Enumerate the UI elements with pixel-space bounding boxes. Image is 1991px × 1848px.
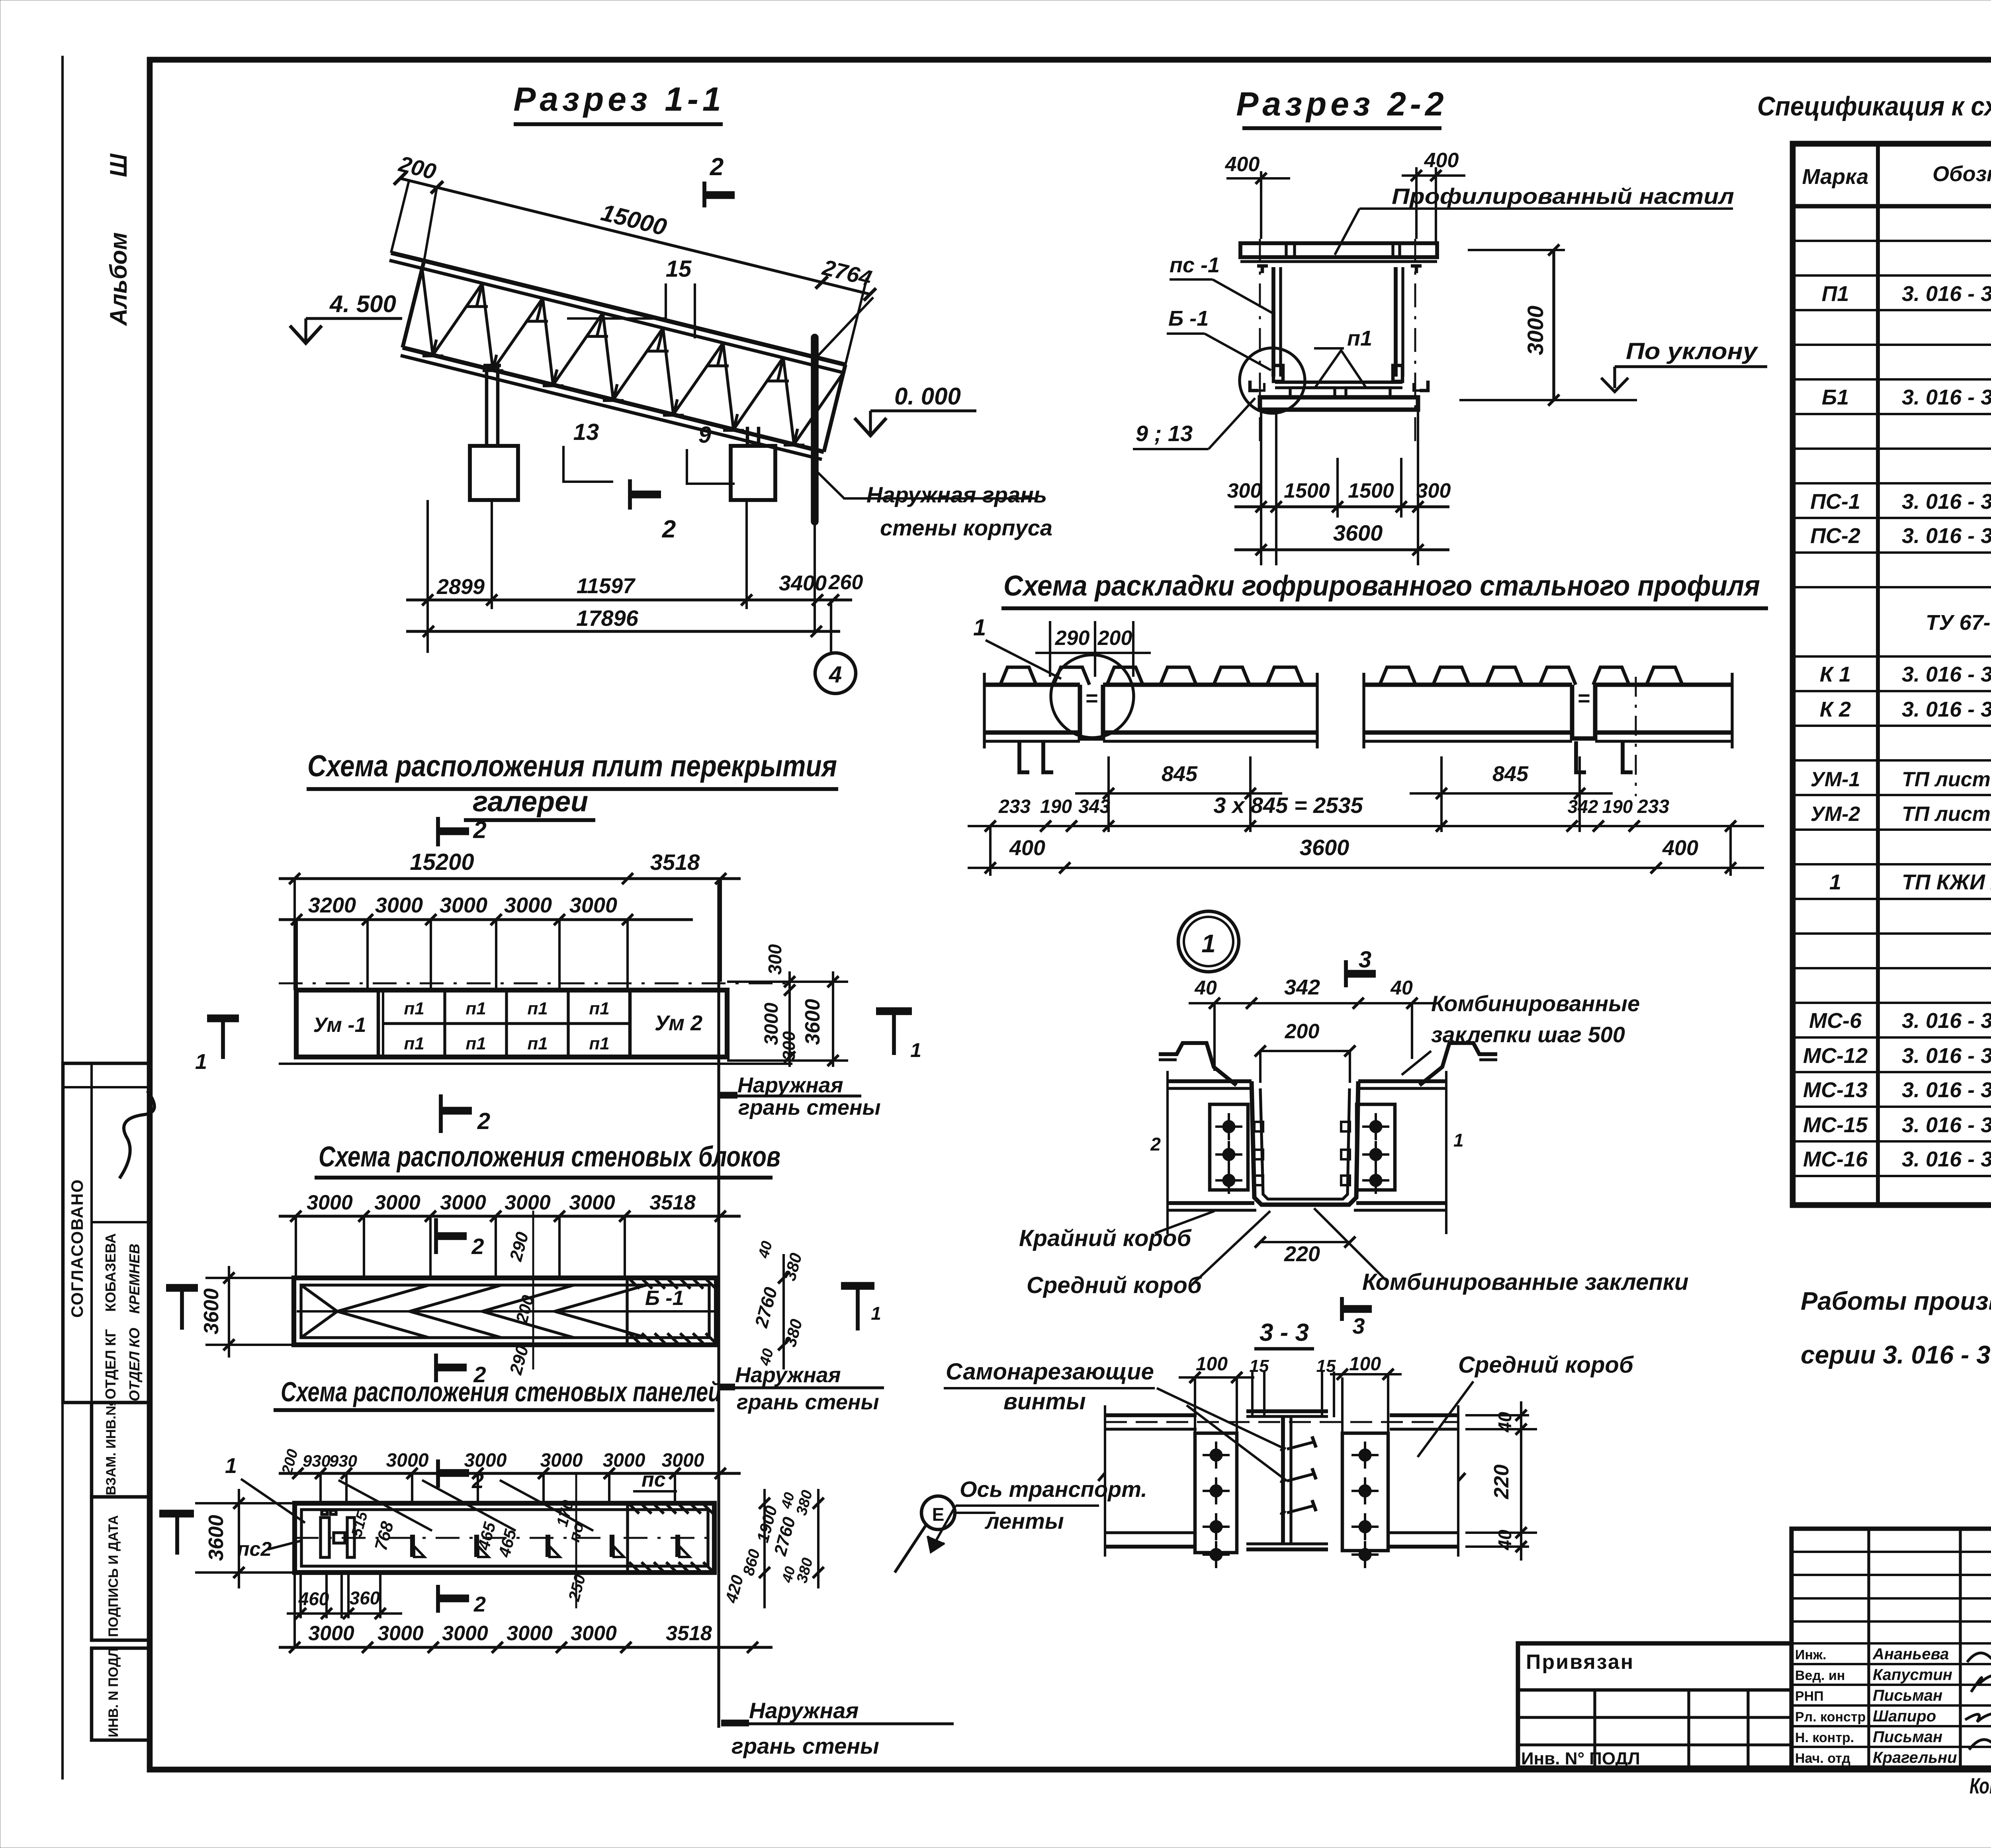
razrez 2-2: deck slab band — [1240, 243, 1437, 257]
svg-text:3 х 845 = 2535: 3 х 845 = 2535 — [1213, 793, 1363, 818]
razrez 1-1: bottom dim row 2 (17896) — [406, 630, 840, 633]
svg-text:1: 1 — [871, 1303, 881, 1324]
svg-text:360: 360 — [350, 1588, 380, 1608]
svg-text:3. 016 - 3 вып. 4: 3. 016 - 3 вып. 4 — [1902, 1009, 1991, 1033]
sec3-3: left bolt plate — [1195, 1433, 1237, 1553]
razrez 1-1: web diagonals — [422, 268, 433, 355]
svg-text:342: 342 — [1284, 975, 1320, 999]
svg-text:Ум 2: Ум 2 — [655, 1011, 702, 1035]
svg-text:РНП: РНП — [1795, 1689, 1824, 1704]
razrez 1-1: section mark 2 bottom — [628, 479, 632, 510]
sec3-3: left rail segment — [1105, 1413, 1197, 1417]
svg-text:300: 300 — [779, 1031, 799, 1061]
svg-text:п1: п1 — [465, 1034, 486, 1053]
svg-text:2: 2 — [471, 1234, 484, 1259]
svg-text:40: 40 — [1390, 977, 1413, 999]
sec3-3: small axis tick — [1098, 1473, 1105, 1481]
sec3-3: self-tapping screws on web — [1287, 1442, 1314, 1449]
svg-text:К 2: К 2 — [1820, 697, 1851, 721]
svg-text:400: 400 — [1424, 149, 1459, 172]
svg-text:3000: 3000 — [571, 1622, 617, 1645]
razrez 1-1: building wall line — [811, 338, 819, 522]
svg-text:МС-16: МС-16 — [1803, 1147, 1868, 1171]
plan3: panels plan (double rect) — [295, 1503, 714, 1573]
svg-text:МС-13: МС-13 — [1803, 1078, 1868, 1102]
svg-text:МС-12: МС-12 — [1803, 1044, 1868, 1068]
plan2: right section mark 1 — [841, 1282, 874, 1290]
svg-text:п1: п1 — [465, 999, 486, 1018]
svg-text:Схема расположения плит пер: Схема расположения плит перекрытия — [307, 749, 837, 783]
svg-text:Контролла: Контролла — [1969, 1773, 1991, 1798]
svg-text:13: 13 — [573, 419, 599, 445]
svg-text:190: 190 — [1040, 796, 1072, 817]
svg-text:2: 2 — [477, 1108, 490, 1134]
svg-text:3000: 3000 — [1523, 306, 1548, 356]
svg-text:Обозначение: Обозначение — [1932, 162, 1991, 186]
svg-text:343: 343 — [1078, 796, 1110, 817]
svg-text:УМ-2: УМ-2 — [1811, 803, 1860, 826]
svg-text:п1: п1 — [404, 999, 424, 1018]
svg-text:МС-15: МС-15 — [1803, 1113, 1868, 1137]
svg-text:190: 190 — [1602, 796, 1633, 817]
svg-text:П1: П1 — [1822, 282, 1849, 306]
sheet outer trim line (left) — [61, 56, 64, 1780]
svg-text:стены корпуса: стены корпуса — [880, 515, 1052, 540]
node1: top rails — [1168, 1079, 1252, 1083]
razrez 1-1: bottom chord (double line) — [403, 348, 824, 452]
profile layout: dim row 400 3600 400 — [968, 867, 1764, 869]
plan1: section mark 2 bottom — [439, 1094, 443, 1133]
svg-text:930: 930 — [303, 1451, 331, 1470]
svg-text:2: 2 — [473, 817, 486, 843]
svg-text:ВЗАМ. ИНВ.№: ВЗАМ. ИНВ.№ — [104, 1401, 119, 1495]
svg-text:342: 342 — [1568, 796, 1598, 817]
svg-text:Разрез 1-1: Разрез 1-1 — [513, 80, 725, 118]
svg-text:233: 233 — [998, 796, 1031, 817]
title block: signature squiggles — [1967, 1650, 1991, 1662]
svg-text:Капустин: Капустин — [1873, 1666, 1952, 1684]
svg-text:2: 2 — [473, 1592, 486, 1616]
svg-text:3518: 3518 — [650, 850, 700, 875]
profile layout: callout circle on joint — [1051, 655, 1134, 738]
svg-text:ПОДПИСЬ И ДАТА: ПОДПИСЬ И ДАТА — [106, 1515, 121, 1637]
svg-text:п1: п1 — [1347, 326, 1372, 350]
svg-text:1500: 1500 — [1284, 479, 1330, 502]
sec3-3: right rail segment — [1390, 1413, 1458, 1417]
svg-text:15: 15 — [666, 256, 692, 282]
plan3: top dim row 200 930 930 3000x5 — [279, 1472, 741, 1475]
razrez 1-1: top chord (double line) — [424, 261, 845, 365]
svg-text:3000: 3000 — [440, 1191, 486, 1214]
svg-text:Схема раскладки гофрированно: Схема раскладки гофрированного стального… — [1003, 570, 1760, 602]
razrez 1-1: vertical posts with T feet — [477, 283, 482, 307]
svg-text:Ось транспорт.: Ось транспорт. — [960, 1477, 1147, 1502]
plan3: bottom small dims 460 360 — [299, 1573, 302, 1618]
svg-text:Инж.: Инж. — [1795, 1647, 1827, 1662]
svg-text:400: 400 — [1009, 836, 1045, 860]
razrez 1-1: bottom dim row 1 — [406, 598, 852, 601]
sec3-3: center top/bottom plates — [1246, 1409, 1328, 1413]
svg-text:2: 2 — [710, 153, 724, 181]
svg-text:Крагельни: Крагельни — [1873, 1749, 1957, 1766]
svg-text:п1: п1 — [589, 1034, 609, 1053]
svg-text:КОБАЗЕВА: КОБАЗЕВА — [102, 1233, 119, 1312]
node1: section mark 3 bottom — [1340, 1297, 1344, 1321]
svg-text:МС-6: МС-6 — [1809, 1009, 1862, 1033]
plan3: circled axis E with leader — [921, 1496, 955, 1530]
plan1: slab plan box — [296, 990, 727, 1057]
svg-text:Нач. отд: Нач. отд — [1795, 1751, 1850, 1766]
svg-text:Самонарезающие: Самонарезающие — [946, 1359, 1154, 1385]
svg-text:СОГЛАСОВАНО: СОГЛАСОВАНО — [68, 1179, 86, 1318]
razrez 1-1: right support column — [746, 427, 749, 446]
svg-text:3000: 3000 — [662, 1450, 704, 1471]
svg-text:УМ-1: УМ-1 — [1811, 768, 1860, 791]
svg-text:15200: 15200 — [410, 849, 474, 875]
razrez 2-2: corner angle brackets — [1250, 381, 1258, 391]
node1: end verticals — [1166, 1071, 1169, 1234]
razrez 2-2: dim 400 right — [1415, 167, 1418, 239]
svg-text:3000: 3000 — [569, 1191, 615, 1214]
svg-text:9 ; 13: 9 ; 13 — [1136, 421, 1193, 446]
svg-text:40: 40 — [1494, 1412, 1515, 1433]
plan2: section mark 2 top — [434, 1218, 438, 1254]
plan1: dim row 15200 3518 — [279, 877, 741, 880]
title block: small left table Привязан — [1518, 1643, 1792, 1768]
svg-text:ИНВ. N ПОДЛ: ИНВ. N ПОДЛ — [106, 1648, 121, 1737]
svg-text:Средний короб: Средний короб — [1458, 1352, 1634, 1378]
svg-text:Комбинированные заклепки: Комбинированные заклепки — [1362, 1269, 1688, 1295]
svg-text:3400: 3400 — [779, 571, 827, 595]
svg-text:1: 1 — [910, 1039, 921, 1061]
profile layout: left hooks — [1019, 741, 1029, 772]
svg-text:1: 1 — [195, 1050, 207, 1074]
profile layout: left band — [1000, 667, 1036, 685]
razrez 2-2: left wall panel — [1271, 267, 1275, 377]
svg-text:4: 4 — [829, 662, 842, 688]
side strip box ИНВ № ПОДЛ — [92, 1648, 150, 1740]
svg-text:К 1: К 1 — [1820, 662, 1851, 686]
profile layout: right hooks — [1576, 741, 1586, 772]
razrez 2-2: wall center dash-dot axes — [1259, 239, 1261, 445]
svg-text:Комбинированные: Комбинированные — [1431, 991, 1640, 1016]
svg-text:3. 016 - 3 вып. 4: 3. 016 - 3 вып. 4 — [1902, 1147, 1991, 1171]
spec table outer border — [1793, 144, 1991, 1205]
svg-text:3. 016 - 3 вып. 4: 3. 016 - 3 вып. 4 — [1902, 1044, 1991, 1068]
svg-text:Схема расположения стеновых па: Схема расположения стеновых панелей — [281, 1376, 721, 1407]
svg-text:3000: 3000 — [307, 1191, 353, 1214]
svg-text:3600: 3600 — [1300, 835, 1349, 860]
svg-text:200: 200 — [1285, 1020, 1320, 1043]
svg-text:40: 40 — [1494, 1530, 1515, 1551]
svg-text:3000: 3000 — [386, 1450, 429, 1471]
profile layout: dim row 845 left — [1107, 756, 1110, 832]
svg-text:3. 016 - 3 вып. 4: 3. 016 - 3 вып. 4 — [1902, 1078, 1991, 1102]
plan2: wall blocks plan (double rect) — [294, 1278, 716, 1345]
plan1: right side dims 300/3000/300 3600 — [727, 981, 848, 983]
svg-text:пс -1: пс -1 — [1170, 253, 1220, 277]
plan3: diagonal callout lines — [338, 1480, 432, 1531]
svg-text:грань стены: грань стены — [731, 1733, 879, 1758]
svg-text:п1: п1 — [589, 999, 609, 1018]
plan3: bottom dim row 3000x5 3518 — [279, 1646, 773, 1649]
profile layout: dim row 845 right — [1440, 756, 1443, 832]
spec table column lines — [1876, 144, 1880, 1205]
razrez 2-2: floor plates П1 — [1290, 388, 1335, 397]
razrez 1-1: inclined dimension line 15000/200/2764 — [400, 178, 870, 294]
svg-text:300: 300 — [1416, 479, 1451, 502]
svg-text:Ш: Ш — [105, 153, 132, 177]
node1: left bolt plate — [1210, 1104, 1248, 1190]
svg-text:серии 3. 016 - 3 вып. 1 -: серии 3. 016 - 3 вып. 1 - 5 — [1801, 1340, 1991, 1369]
svg-text:1: 1 — [1453, 1130, 1464, 1151]
node1: bottom rails — [1168, 1201, 1254, 1205]
razrez 1-1: left support pedestal — [470, 446, 518, 500]
plan2: right rotated dim stack 40 380 2760 380 40 — [782, 1254, 785, 1369]
razrez 1-1: bottom extension lines — [426, 500, 429, 653]
razrez 2-2: bottom dim 3600 — [1234, 548, 1449, 551]
node1: dim 220 — [1260, 1241, 1350, 1243]
node1: hat channel — [1252, 1081, 1358, 1205]
plan1: left section mark 1 — [207, 1014, 239, 1022]
svg-text:Работы производить в соотве: Работы производить в соответствии с указ… — [1801, 1287, 1991, 1315]
svg-text:винты: винты — [1003, 1389, 1086, 1414]
svg-text:2: 2 — [662, 516, 676, 543]
svg-text:100: 100 — [1196, 1354, 1228, 1375]
plan3: center axis — [295, 1537, 719, 1539]
svg-text:3000: 3000 — [377, 1622, 424, 1645]
svg-text:17896: 17896 — [576, 606, 639, 631]
profile layout: right band — [1380, 667, 1416, 685]
svg-text:220: 220 — [1284, 1242, 1320, 1266]
svg-text:ТУ 67- 54 - 74: ТУ 67- 54 - 74 — [1926, 611, 1991, 635]
svg-text:Наружная: Наружная — [749, 1698, 859, 1723]
plan3: section mark 2 top — [436, 1459, 440, 1488]
plan3: left section mark — [159, 1510, 194, 1518]
svg-text:260: 260 — [828, 571, 863, 594]
svg-text:Письман: Письман — [1873, 1687, 1942, 1704]
svg-text:100: 100 — [1349, 1354, 1381, 1375]
sec3-3: central web — [1281, 1416, 1285, 1544]
svg-text:3. 016 - 3 вып. 4: 3. 016 - 3 вып. 4 — [1902, 1113, 1991, 1137]
razrez 2-2: bottom dims 300 1500 1500 300 — [1234, 505, 1449, 508]
razrez 2-2: right vertical dim 3000 — [1468, 249, 1565, 251]
svg-text:Ананьева: Ананьева — [1872, 1645, 1949, 1663]
svg-text:п1: п1 — [527, 1034, 548, 1053]
side strip box ВЗАМ ИНВ № — [92, 1403, 150, 1497]
svg-text:3200: 3200 — [308, 893, 356, 917]
svg-text:845: 845 — [1492, 762, 1529, 786]
svg-text:ленты: ленты — [984, 1508, 1064, 1533]
node1: dim 200 — [1260, 1050, 1350, 1052]
svg-text:грань стены: грань стены — [738, 1096, 881, 1119]
svg-text:=: = — [1085, 686, 1098, 710]
svg-text:Рл. констр: Рл. констр — [1795, 1709, 1866, 1725]
profile layout: top dims 290 200 — [1049, 621, 1051, 677]
side strip box ПОДПИСЬ И ДАТА — [92, 1497, 150, 1640]
svg-text:3600: 3600 — [205, 1515, 228, 1561]
plan3: small panel parts at left — [321, 1518, 329, 1557]
svg-text:По уклону: По уклону — [1626, 338, 1758, 364]
svg-text:3: 3 — [1352, 1313, 1365, 1338]
spec table row lines — [1793, 240, 1991, 242]
svg-text:Инв. N° ПОДЛ: Инв. N° ПОДЛ — [1521, 1749, 1640, 1768]
node1: right corrugated edge piece — [1420, 1043, 1497, 1085]
svg-text:845: 845 — [1162, 762, 1198, 786]
razrez 2-2: Б-1 block at left wall bottom — [1273, 365, 1283, 381]
svg-text:1: 1 — [1829, 870, 1841, 894]
svg-text:3 - 3: 3 - 3 — [1260, 1319, 1309, 1346]
svg-text:3. 016 - 3 Вып. 3: 3. 016 - 3 Вып. 3 — [1902, 385, 1991, 409]
svg-text:300: 300 — [1227, 479, 1262, 502]
plan3: section mark 2 bottom — [436, 1585, 440, 1613]
sec3-3: right vertical dims 40 220 40 — [1465, 1414, 1529, 1416]
svg-text:3. 016 - 3 Вып. 3: 3. 016 - 3 Вып. 3 — [1902, 282, 1991, 306]
svg-text:1: 1 — [225, 1454, 237, 1478]
razrez 1-1: right support pedestal — [731, 446, 775, 500]
svg-text:Б -1: Б -1 — [1168, 307, 1209, 330]
svg-text:Наружная грань: Наружная грань — [866, 482, 1047, 507]
plan3: hatched strips — [629, 1504, 713, 1572]
svg-text:930: 930 — [329, 1451, 357, 1470]
svg-text:Б1: Б1 — [1822, 385, 1849, 409]
sec3-3: right bolt plate — [1342, 1433, 1388, 1551]
svg-text:3. 016 - 3 вып. 0: 3. 016 - 3 вып. 0 — [1902, 662, 1991, 686]
svg-text:3000: 3000 — [507, 1622, 553, 1645]
svg-text:9: 9 — [698, 422, 711, 448]
svg-text:1: 1 — [1201, 929, 1216, 958]
plan3: panel joint symbols — [410, 1535, 415, 1557]
svg-text:Н. контр.: Н. контр. — [1795, 1730, 1854, 1745]
svg-text:Средний короб: Средний короб — [1027, 1272, 1203, 1298]
plan1: axis line above box — [279, 983, 792, 985]
svg-text:ОТДЕЛ КГ: ОТДЕЛ КГ — [102, 1329, 119, 1399]
svg-text:3600: 3600 — [801, 999, 824, 1045]
razrez 1-1: left support column — [485, 367, 489, 446]
plan1: cell lines — [377, 990, 380, 1057]
node1: left corrugated edge piece — [1159, 1043, 1236, 1085]
svg-text:Разрез 2-2: Разрез 2-2 — [1236, 85, 1447, 123]
svg-text:3. 016 - 3 вып. 0: 3. 016 - 3 вып. 0 — [1902, 697, 1991, 721]
svg-text:грань стены: грань стены — [737, 1390, 879, 1414]
svg-text:40: 40 — [1194, 977, 1217, 999]
svg-text:Ум -1: Ум -1 — [313, 1014, 366, 1037]
svg-text:пс: пс — [642, 1468, 666, 1491]
svg-text:пс2: пс2 — [237, 1538, 272, 1560]
plan2: section mark 2 bottom — [434, 1354, 438, 1382]
razrez 1-1: extension lines to dim (perpendicular to slope) — [424, 188, 437, 261]
svg-text:290: 290 — [1055, 627, 1090, 650]
svg-text:11597: 11597 — [577, 574, 636, 598]
svg-text:3000: 3000 — [440, 893, 487, 917]
side strip signature squiggle — [119, 1091, 155, 1178]
profile layout: dim row 233 190 343 / 3x845=2535 / 342 190 233 — [968, 825, 1764, 827]
svg-text:200: 200 — [1097, 627, 1132, 650]
svg-text:0. 000: 0. 000 — [894, 383, 961, 410]
sec3-3: screw leader lines — [1157, 1388, 1285, 1449]
svg-text:Профилированный настил: Профилированный настил — [1392, 184, 1734, 209]
svg-text:п1: п1 — [527, 999, 548, 1018]
svg-text:2: 2 — [1150, 1134, 1161, 1155]
svg-text:ОТДЕЛ КО: ОТДЕЛ КО — [126, 1328, 143, 1401]
razrez 1-1: top chord left extension piece — [391, 253, 424, 261]
svg-text:3000: 3000 — [375, 893, 423, 917]
svg-text:3000: 3000 — [505, 1191, 551, 1214]
razrez 1-1: circled axis 4 — [815, 653, 856, 693]
plan1: right section mark 1 — [876, 1007, 912, 1015]
svg-text:3518: 3518 — [649, 1191, 696, 1214]
svg-text:Письман: Письман — [1873, 1728, 1942, 1746]
razrez 1-1: section mark 2 top — [702, 182, 706, 207]
svg-text:Марка: Марка — [1802, 165, 1869, 189]
razrez 2-2: wall top T symbols — [1257, 264, 1268, 268]
svg-text:ТП лист 44: ТП лист 44 — [1902, 803, 1991, 826]
svg-text:Б -1: Б -1 — [645, 1287, 684, 1310]
svg-text:3000: 3000 — [374, 1191, 420, 1214]
razrez 2-2: node circle 9;13 — [1240, 348, 1305, 413]
svg-text:ТП КЖИ 21.00.00: ТП КЖИ 21.00.00 — [1902, 870, 1991, 894]
svg-text:3600: 3600 — [1333, 520, 1383, 545]
plan2: left section mark — [166, 1284, 198, 1292]
plan1: section mark 2 top — [436, 817, 440, 846]
side strip box СОГЛАСОВАНО — [63, 1063, 150, 1403]
node1: double circle callout 1 — [1178, 911, 1239, 972]
plan1: dim row 3200 3000x4 — [279, 918, 693, 921]
razrez 2-2: right wall panel — [1394, 267, 1398, 377]
node1: top dims 40 342 40 — [1189, 1002, 1434, 1004]
node1: right bolt plate — [1357, 1104, 1395, 1190]
plan2: top dim row 3000x5 3518 — [279, 1215, 741, 1217]
wall face vertical line (наружная грань стены) — [717, 879, 720, 1728]
svg-text:ПС-1: ПС-1 — [1810, 490, 1860, 514]
svg-text:300: 300 — [765, 944, 785, 975]
svg-text:1500: 1500 — [1348, 479, 1394, 502]
svg-text:Шапиро: Шапиро — [1873, 1707, 1936, 1725]
svg-text:3000: 3000 — [464, 1450, 507, 1471]
svg-text:233: 233 — [1637, 796, 1669, 817]
razrez 2-2: bottom plate — [1260, 397, 1418, 410]
svg-text:Альбом: Альбом — [105, 232, 132, 326]
svg-text:Е: Е — [932, 1504, 945, 1525]
svg-text:галереи: галереи — [473, 786, 588, 818]
svg-text:1: 1 — [973, 615, 986, 641]
razrez 2-2: dim 400 left — [1260, 171, 1262, 239]
node1: rivet ticks on channel walls — [1254, 1122, 1263, 1131]
svg-text:3000: 3000 — [442, 1622, 488, 1645]
svg-text:460: 460 — [298, 1588, 329, 1609]
svg-text:п1: п1 — [404, 1034, 424, 1053]
spec table header row line — [1793, 204, 1991, 209]
razrez 1-1: truss end verticals — [403, 261, 424, 348]
title block: central signature table — [1792, 1529, 1991, 1768]
svg-text:Спецификация к схемам распо: Спецификация к схемам расположения элеме… — [1757, 91, 1991, 121]
svg-text:400: 400 — [1662, 836, 1698, 860]
svg-text:=: = — [1577, 686, 1590, 710]
razrez 2-2: floor slab lines — [1275, 381, 1402, 384]
plan1: extension lines from dim rows — [295, 920, 298, 990]
svg-text:3000: 3000 — [569, 893, 617, 917]
svg-text:Наружная: Наружная — [735, 1363, 841, 1387]
svg-text:Схема расположения стеновых: Схема расположения стеновых блоков — [319, 1141, 780, 1173]
svg-text:2899: 2899 — [436, 575, 485, 599]
svg-text:3518: 3518 — [666, 1622, 712, 1645]
svg-text:Вед. ин: Вед. ин — [1795, 1668, 1845, 1683]
svg-text:220: 220 — [1490, 1465, 1513, 1500]
svg-text:КРЕМНЕВ: КРЕМНЕВ — [126, 1244, 143, 1314]
plan2: hatched monolithic strips — [629, 1279, 716, 1343]
sec3-3: dims 100 15 15 100 — [1179, 1376, 1254, 1379]
svg-text:3. 016 - 3 вып 3: 3. 016 - 3 вып 3 — [1902, 524, 1991, 548]
